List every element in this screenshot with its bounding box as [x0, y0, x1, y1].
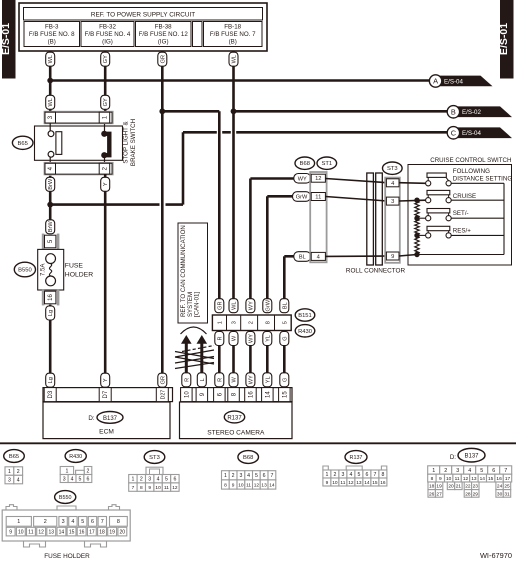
connector oval ST3	[383, 162, 403, 174]
svg-text:3: 3	[8, 477, 11, 483]
cruise control switch box	[408, 157, 512, 265]
svg-text:11: 11	[315, 195, 321, 201]
pin 4 B68	[311, 252, 325, 260]
svg-text:7: 7	[504, 468, 507, 474]
svg-text:G: G	[282, 336, 288, 340]
svg-text:10: 10	[18, 530, 24, 536]
svg-text:2: 2	[232, 473, 235, 479]
pin 8 camera	[228, 388, 240, 402]
connector oval ST1	[317, 157, 337, 169]
svg-text:19: 19	[109, 530, 115, 536]
svg-text:R137: R137	[227, 415, 242, 421]
wire GR from FB-38 down to ECM D27	[161, 51, 164, 374]
connector shell fuse holder top	[42, 234, 60, 250]
svg-text:4: 4	[71, 519, 74, 525]
wire tag WL top right	[229, 52, 238, 66]
wire ST3-9 into switch	[399, 255, 417, 257]
svg-text:10: 10	[184, 391, 190, 398]
svg-text:WY: WY	[248, 301, 254, 310]
svg-text:12: 12	[315, 176, 321, 182]
svg-text:23: 23	[473, 484, 479, 490]
svg-text:WY: WY	[298, 176, 307, 182]
joint connector B151/R430 strip	[212, 315, 291, 331]
svg-text:14: 14	[59, 530, 65, 536]
legend connector B68	[238, 451, 259, 464]
svg-text:R: R	[217, 378, 223, 382]
svg-text:R430: R430	[298, 329, 312, 335]
svg-text:E/S-01: E/S-01	[0, 23, 12, 55]
svg-text:1: 1	[8, 469, 11, 475]
svg-text:7: 7	[270, 473, 273, 479]
bus arrow A E/S-04	[429, 75, 492, 87]
svg-text:5: 5	[165, 477, 168, 483]
svg-text:3: 3	[239, 473, 242, 479]
svg-text:RES/+: RES/+	[453, 227, 471, 234]
svg-text:6: 6	[365, 472, 368, 478]
junction dot bus A / FB-3	[47, 78, 53, 84]
svg-text:SET/-: SET/-	[453, 210, 469, 217]
svg-text:6: 6	[91, 519, 94, 525]
twisted pair arc	[181, 327, 207, 334]
svg-text:8: 8	[381, 472, 384, 478]
wire tag L camera CAN	[197, 373, 206, 387]
svg-text:19: 19	[436, 484, 442, 490]
svg-text:16: 16	[48, 294, 54, 301]
wire BL to B68 pin 4	[284, 255, 296, 258]
wire B68-4 to ST3-9	[326, 255, 388, 257]
svg-text:B68: B68	[300, 161, 310, 167]
svg-text:7: 7	[101, 519, 104, 525]
svg-text:9: 9	[9, 530, 12, 536]
svg-text:24: 24	[497, 484, 503, 490]
wire tag Y above ECM	[101, 373, 110, 387]
legend connector B137	[450, 448, 485, 462]
svg-text:E/S-04: E/S-04	[462, 130, 481, 137]
svg-text:3: 3	[148, 477, 151, 483]
svg-text:CRUISE CONTROL SWITCH: CRUISE CONTROL SWITCH	[430, 157, 511, 164]
svg-text:12: 12	[463, 476, 469, 482]
svg-text:FB-38: FB-38	[155, 24, 172, 31]
svg-text:5: 5	[81, 519, 84, 525]
svg-text:14: 14	[364, 480, 370, 486]
svg-text:HOLDER: HOLDER	[65, 271, 93, 278]
svg-text:2: 2	[140, 477, 143, 483]
svg-text:ST1: ST1	[321, 161, 332, 167]
svg-text:B137: B137	[103, 416, 118, 422]
svg-text:Lg: Lg	[48, 310, 54, 316]
stereo camera pin strip	[181, 388, 292, 402]
pin 3 ST3	[386, 197, 399, 205]
svg-text:3: 3	[62, 519, 65, 525]
svg-text:9: 9	[326, 480, 329, 486]
svg-text:3: 3	[341, 472, 344, 478]
wire GR branch to CAN pin 1	[162, 110, 219, 113]
svg-text:FB-3: FB-3	[45, 24, 59, 31]
connector oval B68	[295, 157, 315, 169]
wire WL from FB-3 to bus A	[49, 51, 52, 81]
wire Y from switch pin 2 to ECM D7	[104, 174, 107, 374]
svg-text:15: 15	[372, 480, 378, 486]
resistor chain R1	[415, 200, 419, 218]
wire BrW from switch pin 4	[49, 176, 52, 220]
svg-text:R: R	[217, 336, 223, 340]
svg-text:9: 9	[439, 476, 442, 482]
svg-text:25: 25	[504, 484, 510, 490]
svg-text:10: 10	[446, 476, 452, 482]
CAN arrow L	[197, 335, 208, 373]
svg-text:WY: WY	[248, 334, 254, 343]
switch B65 body	[35, 126, 123, 160]
svg-text:R137: R137	[350, 455, 363, 461]
svg-text:8: 8	[224, 482, 227, 488]
svg-text:STOP LIGHT &: STOP LIGHT &	[123, 120, 130, 163]
svg-text:B137: B137	[464, 454, 479, 460]
svg-text:E/S-04: E/S-04	[444, 78, 463, 85]
switch FOLLOWING DISTANCE SETTING	[426, 168, 513, 186]
wire tag GrW at B68	[293, 192, 311, 202]
svg-text:11: 11	[340, 480, 345, 486]
svg-text:12: 12	[172, 485, 178, 491]
svg-text:2: 2	[17, 469, 20, 475]
connector oval B151	[295, 309, 315, 321]
switch SET/-	[420, 209, 504, 221]
svg-text:GY: GY	[103, 98, 109, 106]
svg-text:D7: D7	[103, 390, 109, 398]
svg-text:8: 8	[265, 321, 271, 324]
svg-text:18: 18	[429, 484, 435, 490]
svg-text:(B): (B)	[48, 39, 56, 46]
svg-text:9: 9	[232, 482, 235, 488]
wire tag YL below joint	[263, 332, 272, 346]
svg-text:Lg: Lg	[48, 377, 54, 383]
wire bus A	[50, 79, 429, 82]
svg-text:STEREO CAMERA: STEREO CAMERA	[207, 430, 265, 437]
wire GY from FB-32 to switch pin 1	[104, 51, 107, 113]
svg-text:G: G	[282, 378, 288, 382]
svg-text:D3: D3	[48, 390, 54, 398]
wire tag Y below switch	[101, 177, 110, 191]
pin D7	[99, 388, 111, 402]
svg-text:BL: BL	[299, 255, 306, 261]
switch contact stubs	[49, 124, 51, 164]
svg-text:16: 16	[380, 480, 386, 486]
pin 10 camera	[181, 388, 193, 402]
svg-text:7.5A: 7.5A	[39, 263, 46, 277]
resistor chain R3	[415, 235, 419, 254]
svg-text:15: 15	[282, 391, 288, 398]
svg-text:WL: WL	[232, 55, 238, 63]
net label bar E/S-01 right	[498, 0, 514, 79]
svg-text:F/B FUSE NO. 4: F/B FUSE NO. 4	[85, 31, 131, 38]
connector shell top of switch	[44, 111, 114, 124]
svg-text:20: 20	[448, 484, 454, 490]
connector shell bottom of switch	[44, 162, 114, 175]
svg-text:BrW: BrW	[48, 221, 54, 233]
svg-text:13: 13	[261, 482, 267, 488]
svg-text:14: 14	[265, 391, 271, 398]
roll connector	[346, 173, 406, 275]
svg-text:1: 1	[131, 477, 134, 483]
wire tag Lg below fuse holder	[46, 306, 55, 320]
pin 4	[45, 163, 56, 174]
connector oval R430	[295, 325, 315, 337]
svg-text:[CAN-01]: [CAN-01]	[194, 292, 201, 317]
svg-text:4: 4	[71, 476, 74, 482]
svg-text:2: 2	[44, 519, 47, 525]
svg-text:FB-32: FB-32	[99, 24, 116, 31]
svg-text:8: 8	[140, 485, 143, 491]
wire bus B	[234, 110, 448, 113]
svg-text:L: L	[200, 378, 206, 381]
legend connector ST3	[144, 451, 165, 464]
wire B68-11 to ST3-3	[326, 197, 388, 202]
svg-text:5: 5	[79, 476, 82, 482]
wire Lg to ECM D3	[49, 305, 52, 374]
svg-text:W: W	[232, 335, 238, 341]
svg-text:17: 17	[89, 530, 95, 536]
svg-text:BRAKE SWITCH: BRAKE SWITCH	[130, 119, 137, 166]
ECM pin strip	[43, 388, 173, 402]
svg-text:12: 12	[38, 530, 44, 536]
pin 16 camera	[245, 388, 257, 402]
wire tag GrW at joint	[263, 299, 272, 313]
svg-text:18: 18	[99, 530, 105, 536]
svg-text:GrW: GrW	[265, 299, 271, 311]
svg-text:ST3: ST3	[387, 166, 398, 172]
svg-text:CRUISE: CRUISE	[453, 193, 476, 200]
svg-text:Y: Y	[103, 182, 109, 186]
legend connector B65	[4, 450, 25, 463]
svg-text:R: R	[184, 378, 190, 382]
bus arrow B E/S-02	[447, 106, 512, 118]
svg-text:10: 10	[332, 480, 338, 486]
net label bar E/S-01 left	[0, 0, 16, 79]
wire tag BrW below switch	[46, 177, 55, 191]
svg-text:GR: GR	[160, 376, 166, 384]
pin 4 ST3	[386, 179, 399, 187]
pin 16	[45, 291, 56, 304]
svg-text:D:: D:	[450, 454, 456, 461]
svg-text:C: C	[451, 128, 457, 137]
connector ST3 shell	[384, 177, 400, 264]
legend connector R137	[345, 451, 367, 464]
svg-text:WL: WL	[48, 55, 54, 63]
svg-text:B65: B65	[18, 141, 28, 147]
fuse FB-18	[204, 22, 263, 47]
wire tag R camera CAN	[182, 373, 191, 387]
svg-text:W: W	[232, 376, 238, 382]
pin D27	[156, 388, 168, 402]
wire tag W below joint	[229, 332, 238, 346]
svg-text:29: 29	[473, 491, 479, 497]
wire tag WY above camera	[246, 373, 255, 387]
svg-text:1: 1	[65, 468, 68, 474]
wire tag YL above camera	[263, 373, 272, 387]
svg-text:5: 5	[282, 321, 288, 324]
svg-text:9: 9	[148, 485, 151, 491]
svg-text:WL: WL	[48, 98, 54, 106]
svg-text:13: 13	[471, 476, 477, 482]
svg-text:FB-18: FB-18	[224, 24, 241, 31]
pin 6 camera	[214, 388, 226, 402]
svg-text:YL: YL	[265, 376, 271, 383]
wire tag GY above switch	[101, 95, 110, 109]
svg-text:20: 20	[120, 530, 126, 536]
svg-text:12: 12	[254, 482, 260, 488]
svg-text:2: 2	[444, 468, 447, 474]
legend connector B550 fuse holder	[55, 491, 76, 504]
label stop light and brake switch	[123, 119, 138, 166]
svg-text:B: B	[451, 107, 456, 116]
wire tag W above camera	[229, 373, 238, 387]
switch actuator bar	[56, 132, 62, 155]
svg-text:(B): (B)	[229, 39, 237, 46]
svg-text:B550: B550	[59, 495, 72, 501]
svg-text:1: 1	[224, 473, 227, 479]
svg-text:GY: GY	[103, 55, 109, 63]
svg-text:1: 1	[17, 519, 20, 525]
connector B68 shell	[309, 171, 327, 263]
svg-text:4: 4	[157, 477, 160, 483]
svg-text:22: 22	[465, 484, 471, 490]
junction dot BrW branch	[47, 202, 53, 208]
blank fuse cell	[193, 22, 203, 47]
wire tag GY top	[101, 52, 110, 66]
svg-text:5: 5	[357, 472, 360, 478]
wire WL from FB-18 down to joint connector	[232, 51, 235, 299]
svg-text:A: A	[433, 77, 438, 86]
svg-text:WY: WY	[248, 375, 254, 384]
svg-text:F/B FUSE NO. 12: F/B FUSE NO. 12	[139, 31, 189, 38]
wires joint to camera	[218, 346, 221, 375]
switch movable contact	[101, 124, 109, 163]
svg-text:11: 11	[164, 485, 169, 491]
svg-text:FUSE HOLDER: FUSE HOLDER	[44, 553, 90, 560]
svg-text:B65: B65	[9, 454, 19, 460]
connector oval B550	[14, 262, 35, 277]
svg-text:WI-67970: WI-67970	[480, 551, 512, 560]
svg-text:15: 15	[69, 530, 75, 536]
svg-text:4: 4	[349, 472, 352, 478]
svg-text:2: 2	[333, 472, 336, 478]
svg-text:2: 2	[248, 321, 254, 324]
pin 2	[99, 163, 110, 174]
svg-text:Y: Y	[103, 378, 109, 382]
wire tag BrW above fuse holder	[46, 220, 55, 234]
svg-text:11: 11	[455, 476, 460, 482]
svg-text:FOLLOWING: FOLLOWING	[453, 168, 490, 175]
ref to CAN communication system box	[178, 223, 208, 323]
pin 9 ST3	[386, 252, 399, 260]
switch RES/+	[420, 226, 504, 238]
wire tag WL above switch	[46, 95, 55, 109]
svg-text:R430: R430	[69, 454, 82, 460]
svg-text:6: 6	[86, 476, 89, 482]
svg-text:16: 16	[248, 391, 254, 398]
wire branch to bus C	[50, 203, 159, 206]
svg-text:14: 14	[480, 476, 486, 482]
svg-text:F/B FUSE NO. 8: F/B FUSE NO. 8	[29, 31, 75, 38]
svg-text:26: 26	[429, 491, 435, 497]
svg-text:16: 16	[79, 530, 85, 536]
svg-text:ECM: ECM	[99, 429, 114, 436]
svg-text:12: 12	[348, 480, 354, 486]
wire ST3-3 into switch	[399, 199, 426, 202]
svg-text:4: 4	[17, 477, 20, 483]
connector shell fuse holder bottom	[42, 290, 60, 306]
power supply circuit box	[19, 3, 267, 51]
label fuse holder	[65, 262, 93, 278]
svg-text:10: 10	[155, 485, 161, 491]
svg-text:8: 8	[431, 476, 434, 482]
svg-text:2: 2	[87, 468, 90, 474]
svg-text:31: 31	[504, 491, 510, 497]
resistor chain R2	[415, 218, 419, 235]
svg-text:6: 6	[263, 473, 266, 479]
svg-text:3: 3	[63, 476, 66, 482]
pin D3	[44, 388, 56, 402]
common return line	[417, 183, 504, 254]
switch contact circle upper	[48, 131, 54, 137]
svg-text:ST3: ST3	[149, 455, 160, 461]
svg-text:7: 7	[373, 472, 376, 478]
svg-text:21: 21	[456, 484, 462, 490]
wire tag BL at B68	[294, 252, 311, 262]
wire WY to B68 pin 12	[250, 177, 296, 180]
pin 5	[45, 235, 56, 248]
svg-text:(IG): (IG)	[158, 39, 169, 46]
ECM box	[43, 402, 170, 439]
svg-text:GrW: GrW	[296, 195, 308, 201]
twist strokes	[175, 346, 214, 369]
svg-text:ROLL CONNECTOR: ROLL CONNECTOR	[346, 268, 406, 275]
svg-text:B68: B68	[243, 455, 253, 461]
svg-text:28: 28	[465, 491, 471, 497]
svg-text:D:: D:	[88, 415, 94, 422]
wire tag WL top	[46, 52, 55, 66]
legend connector R430	[65, 450, 86, 463]
wire tag WY at joint	[246, 299, 255, 313]
svg-text:3: 3	[456, 468, 459, 474]
pin 1	[99, 112, 110, 123]
svg-text:6: 6	[492, 468, 495, 474]
pin 12	[311, 174, 325, 182]
pin 15 camera	[279, 388, 291, 402]
connector oval B65	[12, 136, 33, 149]
svg-text:11: 11	[246, 482, 251, 488]
svg-text:17: 17	[505, 476, 511, 482]
svg-text:3: 3	[232, 321, 238, 324]
svg-text:6: 6	[173, 477, 176, 483]
wire bus C	[183, 131, 217, 134]
fuse FB-32	[81, 22, 134, 47]
pin 14 camera	[262, 388, 274, 402]
CAN arrow R	[181, 335, 192, 373]
pin 11	[311, 193, 325, 201]
svg-text:1: 1	[432, 468, 435, 474]
svg-text:10: 10	[238, 482, 244, 488]
wire WL bus A to switch pin 3	[49, 81, 52, 113]
wire tag WY at B68	[294, 174, 311, 184]
svg-text:B151: B151	[298, 313, 312, 319]
svg-text:REF. TO POWER SUPPLY CIRCUIT: REF. TO POWER SUPPLY CIRCUIT	[91, 12, 195, 19]
switch CRUISE	[420, 190, 504, 202]
stereo camera box	[180, 402, 293, 439]
fuse FB-3	[24, 22, 80, 47]
svg-text:7: 7	[132, 485, 135, 491]
wire tag GR top	[158, 52, 167, 66]
svg-text:8: 8	[117, 519, 120, 525]
